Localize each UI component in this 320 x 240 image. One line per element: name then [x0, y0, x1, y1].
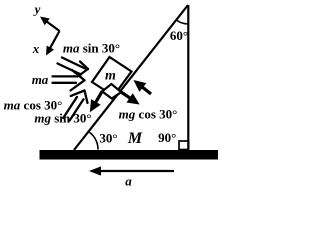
- svg-text:m: m: [105, 68, 116, 83]
- svg-text:mg cos 30°: mg cos 30°: [119, 107, 178, 122]
- svg-text:ma cos 30°: ma cos 30°: [4, 98, 63, 113]
- arrow mg cos 30: [121, 92, 140, 105]
- ground bar: [40, 150, 219, 160]
- svg-text:90°: 90°: [158, 130, 176, 145]
- open arrow ma cos 30: [63, 91, 87, 121]
- svg-text:a: a: [125, 174, 132, 189]
- svg-text:y: y: [33, 2, 41, 17]
- x-axis arrow: [46, 31, 60, 56]
- wedge hypotenuse: [74, 5, 188, 150]
- svg-text:ma sin 30°: ma sin 30°: [63, 41, 120, 56]
- open arrow ma: [53, 70, 85, 91]
- wedge vertical side: [187, 5, 189, 151]
- arc 30 deg at base vertex: [90, 132, 99, 149]
- svg-text:ma: ma: [32, 72, 49, 87]
- small diamond at block corner: [102, 84, 121, 99]
- y-axis arrow: [40, 17, 60, 32]
- svg-text:60°: 60°: [170, 28, 188, 43]
- svg-text:M: M: [127, 130, 143, 147]
- arc 60 deg at apex: [176, 20, 188, 24]
- open arrow ma sin 30: [58, 58, 89, 77]
- svg-text:30°: 30°: [99, 131, 117, 146]
- arrow mg sin 30: [90, 91, 102, 112]
- right-angle square: [179, 141, 189, 150]
- svg-text:x: x: [32, 41, 40, 56]
- normal reaction arrow: [134, 80, 152, 94]
- acceleration arrow: [89, 166, 174, 175]
- block m (rotated square): [92, 57, 132, 96]
